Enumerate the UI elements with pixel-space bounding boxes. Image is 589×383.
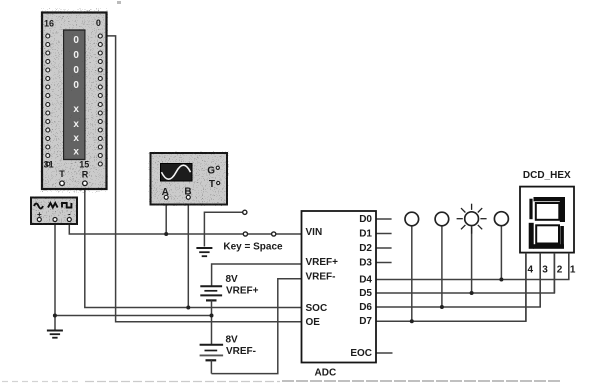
DCD pin 4 lead bbox=[525, 253, 527, 321]
wire scope A down to VIN net bbox=[165, 199, 167, 234]
wire D3 stub bbox=[376, 262, 392, 264]
wire D0 stub bbox=[376, 218, 392, 220]
wire D7 net to DCD pin 4 bbox=[376, 253, 526, 321]
wire probe X2 stem to D6 bbox=[441, 226, 443, 307]
node junction common/ground bbox=[53, 314, 57, 318]
battery V1 8V VREF+ bbox=[200, 286, 222, 300]
svg-text:SOC: SOC bbox=[306, 303, 328, 314]
ground (switch) bbox=[196, 248, 212, 256]
svg-text:VREF-: VREF- bbox=[226, 346, 256, 357]
svg-text:3: 3 bbox=[542, 264, 548, 275]
node junction X4/D4 bbox=[499, 278, 503, 282]
node junction scope A / VIN bbox=[164, 232, 168, 236]
wire upper throw to ground bbox=[204, 212, 242, 246]
wire VREF+ net: battery V1 top to ADC VREF+ bbox=[212, 264, 302, 286]
node junction scope B / SOC bbox=[186, 306, 190, 310]
wire switch pole to ADC VIN pin bbox=[276, 233, 302, 235]
wire probe X4 stem to D4 bbox=[500, 226, 502, 280]
svg-text:2: 2 bbox=[557, 264, 563, 275]
DCD pin 1 lead bbox=[568, 253, 570, 280]
svg-text:EOC: EOC bbox=[350, 348, 372, 359]
svg-text:VREF+: VREF+ bbox=[226, 286, 259, 297]
svg-text:R: R bbox=[82, 170, 89, 180]
wire D1 stub bbox=[376, 233, 392, 235]
wire scope B down to SOC net bbox=[187, 199, 189, 307]
svg-text:x: x bbox=[73, 104, 79, 115]
svg-text:T: T bbox=[59, 169, 65, 179]
wire D6 net to DCD pin 3 bbox=[376, 253, 540, 307]
probe X2 bbox=[435, 212, 449, 226]
node junction battery midpoint bbox=[210, 314, 214, 318]
svg-text:8V: 8V bbox=[226, 274, 239, 285]
svg-text:D6: D6 bbox=[359, 302, 372, 313]
svg-text:VREF-: VREF- bbox=[306, 271, 336, 282]
svg-text:D7: D7 bbox=[359, 316, 372, 327]
wire OE net: word generator pin 0 right, down, to ADC OE bbox=[102, 36, 302, 322]
seven segment digit 8 bbox=[529, 197, 565, 249]
svg-text:0: 0 bbox=[73, 65, 79, 76]
DCD pin 2 lead bbox=[553, 253, 555, 293]
svg-text:0: 0 bbox=[96, 18, 101, 28]
wire battery chain V1 bottom to V2 top bbox=[211, 300, 213, 344]
word generator XWG1 bbox=[42, 13, 107, 190]
wire common net to battery midpoint bbox=[55, 315, 212, 317]
DCD_HEX display U2 bbox=[520, 170, 576, 321]
svg-text:D4: D4 bbox=[359, 274, 372, 285]
svg-text:31: 31 bbox=[44, 160, 54, 170]
svg-text:0: 0 bbox=[73, 80, 79, 91]
wire VIN net: function generator minus pin down and right to switch bbox=[69, 222, 243, 234]
svg-text:4: 4 bbox=[528, 264, 534, 275]
svg-text:ADC: ADC bbox=[315, 368, 337, 379]
svg-text:x: x bbox=[73, 119, 79, 130]
svg-text:x: x bbox=[73, 133, 79, 144]
svg-text:G: G bbox=[207, 166, 215, 177]
svg-text:16: 16 bbox=[44, 19, 54, 29]
wire probe X1 stem to D7 bbox=[411, 226, 413, 321]
node junction X3/D5 bbox=[470, 291, 474, 295]
probe X1 bbox=[405, 212, 419, 226]
svg-text:D1: D1 bbox=[359, 229, 372, 240]
ground (left) bbox=[47, 331, 63, 338]
svg-text:x: x bbox=[73, 147, 79, 158]
svg-text:8V: 8V bbox=[226, 335, 239, 346]
battery V2 8V VREF- bbox=[200, 345, 224, 361]
scan noise bottom row bbox=[2, 380, 560, 383]
function generator XFG1 bbox=[31, 198, 77, 225]
svg-text:D5: D5 bbox=[359, 288, 372, 299]
wire probe X3 stem to D5 bbox=[471, 226, 473, 293]
wire D4 net to DCD pin 1 bbox=[376, 253, 569, 280]
svg-text:0: 0 bbox=[73, 50, 79, 61]
wire D2 stub bbox=[376, 247, 392, 249]
wire SOC net: word generator R pin down and right to ADC SOC bbox=[85, 186, 302, 308]
probe X4 bbox=[494, 212, 508, 226]
svg-text:VIN: VIN bbox=[306, 227, 323, 238]
svg-text:D3: D3 bbox=[359, 258, 372, 269]
node junction X1/D7 bbox=[410, 319, 414, 323]
svg-text:15: 15 bbox=[79, 160, 89, 170]
svg-text:0: 0 bbox=[73, 35, 79, 46]
scan speck top bbox=[117, 1, 121, 4]
svg-text:T: T bbox=[209, 179, 215, 190]
wire switch arm closed between throw and pole bbox=[248, 233, 272, 235]
wire common net: function generator COM down to ground bbox=[54, 222, 56, 331]
oscilloscope XSC1 bbox=[151, 153, 228, 205]
op-amp? no: ADC U1 bbox=[302, 211, 377, 379]
svg-text:VREF+: VREF+ bbox=[306, 257, 339, 268]
svg-text:1: 1 bbox=[570, 264, 576, 275]
switch J1 terminals bbox=[243, 210, 276, 236]
svg-text:D0: D0 bbox=[359, 214, 372, 225]
node junction X2/D6 bbox=[440, 305, 444, 309]
probe X3 lit bbox=[457, 204, 487, 234]
svg-text:D2: D2 bbox=[359, 243, 372, 254]
wire EOC stub bbox=[376, 352, 393, 354]
wire D5 net to DCD pin 2 bbox=[376, 253, 554, 293]
DCD pin 3 lead bbox=[539, 253, 541, 307]
wire battery V2 bottom down bbox=[210, 360, 212, 373]
svg-text:DCD_HEX: DCD_HEX bbox=[523, 170, 571, 181]
svg-text:Key = Space: Key = Space bbox=[223, 242, 283, 253]
svg-text:OE: OE bbox=[306, 317, 321, 328]
wire VREF- net: ADC VREF- around to battery V2 bottom bbox=[211, 279, 301, 374]
